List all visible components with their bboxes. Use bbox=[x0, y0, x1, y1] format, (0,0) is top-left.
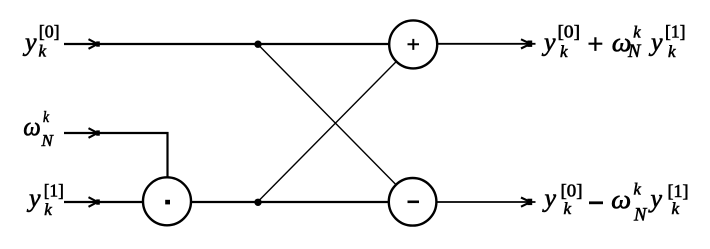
arrow bottom output bbox=[521, 198, 532, 207]
wire twiddle vertical bbox=[166, 132, 168, 178]
svg-text:y: y bbox=[26, 184, 41, 213]
svg-text:y: y bbox=[541, 28, 556, 57]
wire bottom output bbox=[437, 201, 536, 203]
svg-text:k: k bbox=[44, 200, 52, 219]
input label w_N^k bbox=[23, 109, 54, 150]
svg-text:y: y bbox=[648, 184, 663, 213]
svg-text:[1]: [1] bbox=[665, 21, 686, 41]
svg-text:ω: ω bbox=[611, 185, 631, 214]
wire bottom input bbox=[64, 201, 143, 203]
svg-text:N: N bbox=[41, 131, 55, 150]
svg-text:y: y bbox=[542, 184, 557, 213]
svg-text:k: k bbox=[633, 23, 641, 42]
svg-text:k: k bbox=[668, 42, 676, 61]
arrow top input bbox=[89, 39, 100, 49]
svg-text:[0]: [0] bbox=[39, 21, 60, 41]
svg-text:k: k bbox=[672, 199, 680, 218]
adder U1 (+) bbox=[389, 20, 437, 68]
svg-text:N: N bbox=[627, 42, 642, 62]
arrow bottom input bbox=[89, 197, 100, 207]
svg-text:N: N bbox=[633, 206, 648, 226]
wire diagonal top junction to subtractor bbox=[259, 46, 396, 185]
svg-text:y: y bbox=[22, 28, 37, 57]
svg-text:k: k bbox=[634, 180, 642, 199]
svg-text:k: k bbox=[43, 109, 50, 126]
wire twiddle horizontal bbox=[64, 132, 169, 134]
wire multiplier to subtractor bbox=[191, 201, 389, 203]
wire top input bbox=[64, 43, 389, 45]
svg-text:k: k bbox=[560, 42, 568, 61]
node bottom junction bbox=[254, 199, 261, 206]
svg-text:k: k bbox=[39, 42, 47, 61]
arrow twiddle input bbox=[89, 128, 100, 138]
svg-text:ω: ω bbox=[23, 112, 41, 141]
multiplier U3 (dot) bbox=[143, 177, 191, 225]
input label y_k^[1] bbox=[26, 180, 64, 219]
wire diagonal bottom junction to adder bbox=[259, 62, 396, 201]
wire top output bbox=[437, 43, 536, 45]
svg-text:k: k bbox=[564, 199, 572, 218]
svg-text:[0]: [0] bbox=[558, 21, 581, 41]
node top junction bbox=[254, 41, 261, 48]
svg-text:[1]: [1] bbox=[44, 180, 64, 200]
output label y_k^[0] - w_N^k y_k^[1] bbox=[542, 180, 689, 226]
input label y_k^[0] bbox=[22, 21, 60, 60]
output label y_k^[0] + w_N^k y_k^[1] bbox=[541, 21, 686, 62]
arrow top output bbox=[521, 39, 532, 48]
subtractor U2 (-) bbox=[389, 178, 437, 226]
svg-text:[0]: [0] bbox=[561, 181, 583, 201]
svg-text:y: y bbox=[648, 28, 663, 57]
